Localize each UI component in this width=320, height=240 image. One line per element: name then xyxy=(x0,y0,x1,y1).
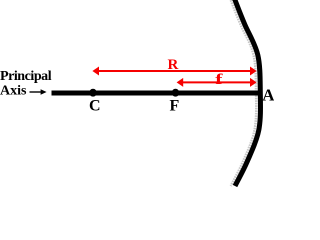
node C dot xyxy=(89,89,97,97)
mirror gray back edge xyxy=(229,0,256,186)
small black arrow after Axis xyxy=(30,91,43,93)
principal axis wire xyxy=(52,91,262,96)
svg-text:Principal: Principal xyxy=(0,69,52,84)
svg-text:Axis: Axis xyxy=(0,84,27,99)
f arrow (focal length, double-headed red) xyxy=(181,81,252,83)
concave mirror arc xyxy=(233,0,260,186)
svg-text:A: A xyxy=(262,86,274,105)
R arrow (radius, double-headed red) xyxy=(97,70,252,72)
svg-text:R: R xyxy=(168,57,179,73)
svg-text:f: f xyxy=(215,72,224,88)
node F dot xyxy=(172,89,180,97)
svg-text:F: F xyxy=(170,98,180,115)
svg-text:C: C xyxy=(89,98,101,115)
